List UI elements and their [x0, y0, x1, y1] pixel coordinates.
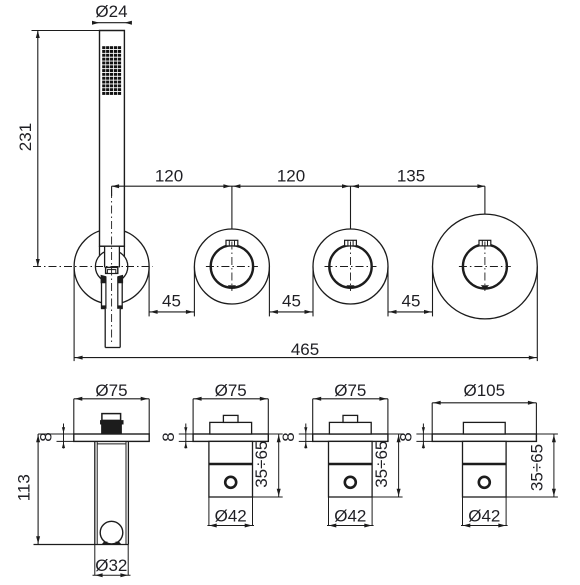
svg-text:135: 135 [397, 167, 425, 186]
svg-text:465: 465 [291, 340, 319, 359]
svg-text:120: 120 [155, 167, 183, 186]
svg-text:35÷65: 35÷65 [252, 441, 271, 488]
svg-text:Ø42: Ø42 [215, 506, 247, 525]
svg-text:Ø24: Ø24 [95, 2, 127, 21]
svg-text:Ø42: Ø42 [468, 506, 500, 525]
svg-text:Ø75: Ø75 [215, 381, 247, 400]
svg-text:45: 45 [402, 292, 421, 311]
svg-text:Ø105: Ø105 [464, 381, 506, 400]
svg-text:45: 45 [282, 292, 301, 311]
svg-text:231: 231 [16, 123, 35, 151]
svg-text:113: 113 [15, 474, 34, 501]
svg-text:Ø32: Ø32 [95, 556, 127, 575]
svg-text:Ø75: Ø75 [334, 381, 366, 400]
svg-text:45: 45 [162, 292, 181, 311]
svg-text:Ø75: Ø75 [95, 381, 127, 400]
svg-text:8: 8 [159, 432, 178, 441]
svg-text:35÷65: 35÷65 [527, 444, 546, 491]
svg-text:35÷65: 35÷65 [372, 441, 391, 488]
svg-text:120: 120 [277, 167, 305, 186]
svg-text:Ø42: Ø42 [334, 506, 366, 525]
